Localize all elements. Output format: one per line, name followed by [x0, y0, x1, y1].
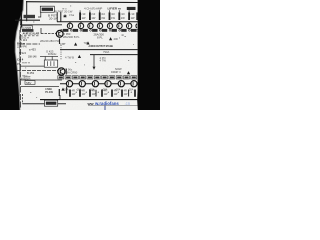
svg-text:A NMB: A NMB	[23, 26, 31, 30]
wire bottom bus	[40, 99, 138, 101]
transistor B2	[79, 81, 85, 87]
svg-text:20-1W: 20-1W	[49, 17, 58, 21]
wire thick vertical x21.3	[20, 13, 22, 28]
wire V8	[59, 95, 61, 100]
bottom resistor row	[70, 90, 135, 97]
svg-text:3 ba: 3 ba	[69, 13, 75, 17]
svg-text:B 9x3: B 9x3	[19, 51, 26, 55]
svg-text:r10: r10	[91, 12, 95, 16]
transistor Q1	[67, 23, 72, 28]
resistor R-left2	[66, 87, 68, 94]
transistor Q2	[78, 23, 83, 28]
transistor Q6	[117, 23, 122, 28]
wire V5 + ground	[93, 55, 95, 67]
box NMB-A	[40, 6, 54, 12]
left black band	[0, 0, 24, 110]
triangle mark A7	[61, 88, 64, 91]
box phono	[44, 60, 57, 67]
wire bottom-left dashed vertical	[21, 94, 23, 104]
top transistor row Q1-Q7	[67, 23, 137, 28]
band edge shading	[15, 0, 23, 110]
svg-text:re o: re o	[62, 7, 67, 11]
label bottom designator row	[58, 76, 137, 79]
svg-text:r10: r10	[121, 12, 125, 16]
transistor Q8 (cut by band)	[136, 24, 137, 28]
wire bottom edge line	[22, 103, 66, 105]
svg-text:B 453: B 453	[27, 71, 35, 75]
wire line y70.8	[17, 69, 58, 71]
svg-text:r10: r10	[82, 12, 86, 16]
svg-text:PK: PK	[17, 62, 21, 66]
wire page-edge vertical	[20, 19, 22, 108]
wire line y44 left	[20, 43, 40, 45]
transistor B1	[66, 81, 72, 87]
transistor Q3	[88, 23, 93, 28]
transistor B4	[105, 81, 111, 87]
transistor B5	[118, 81, 124, 87]
wire vertical V3	[60, 12, 62, 22]
svg-text:ww: ww	[87, 101, 95, 106]
svg-text:8 PL: 8 PL	[97, 36, 103, 40]
svg-text:1W: 1W	[101, 16, 105, 20]
wire box stub	[38, 12, 41, 17]
svg-text:28A/300 B PL: 28A/300 B PL	[63, 35, 80, 39]
transistor T1	[41, 28, 63, 37]
wire line y66.8	[20, 65, 44, 67]
top resistor stubs	[80, 10, 129, 12]
junction stubs on top bus	[70, 22, 129, 24]
wire NBV strip line	[21, 79, 62, 81]
wire V7	[104, 105, 106, 110]
label bottom resistor values	[66, 90, 133, 96]
svg-text:22W PK: 22W PK	[17, 44, 27, 48]
svg-text:1W: 1W	[124, 93, 128, 96]
svg-text:4 TW: 4 TW	[100, 59, 107, 63]
wire top bus left	[15, 19, 40, 21]
triangle mark A2	[86, 41, 89, 44]
svg-text:400: 400	[114, 37, 119, 41]
svg-text:r10: r10	[131, 12, 135, 16]
label output box dark	[127, 7, 136, 10]
transistor Q4	[97, 23, 102, 28]
triangle mark A5	[78, 55, 81, 58]
label top transistor designators	[61, 29, 138, 32]
wire page-edge vertical 2	[18, 30, 20, 96]
wire y56.5	[40, 56, 58, 58]
svg-text:LIFIER rn: LIFIER rn	[108, 7, 122, 11]
wire left vertical border	[26, 1, 28, 21]
svg-text:4P rr: 4P rr	[115, 70, 121, 74]
triangle mark A4	[74, 43, 77, 46]
scan specks	[25, 6, 134, 98]
wire bottom circle bus	[60, 83, 138, 85]
svg-text:70-1W: 70-1W	[45, 90, 53, 94]
wire top main bus	[57, 21, 138, 23]
page background	[0, 0, 160, 110]
svg-text:DM: DM	[111, 70, 115, 74]
svg-text:a 453: a 453	[29, 48, 36, 52]
svg-text:NBV: NBV	[26, 81, 32, 85]
svg-text:w.radiofans: w.radiofans	[94, 101, 119, 106]
svg-text:rr rrr rr: rr rrr rr	[22, 60, 30, 64]
left column dense text	[17, 15, 39, 81]
resistor squiggle x59.5	[59, 39, 61, 45]
resistor R-left	[58, 89, 60, 96]
wire mid bus left	[20, 24, 62, 26]
svg-text:AUDIO OUTPUT STAGE: AUDIO OUTPUT STAGE	[89, 44, 114, 48]
label under bottom transistors	[63, 87, 134, 91]
wire top border	[26, 1, 138, 4]
label resistor values row	[63, 12, 135, 20]
transistor B6	[131, 81, 137, 87]
svg-text:308-148: 308-148	[28, 56, 37, 58]
svg-text:4 TW B: 4 TW B	[65, 55, 74, 59]
svg-text:1W: 1W	[131, 16, 135, 20]
wire dotted vertical x61	[60, 45, 62, 60]
svg-text:1W: 1W	[92, 93, 96, 96]
svg-text:790A: 790A	[103, 50, 109, 54]
svg-text:1W: 1W	[82, 16, 86, 20]
svg-text:4 CH (R) AMP: 4 CH (R) AMP	[84, 7, 102, 11]
svg-text:28A/49 28C/730: 28A/49 28C/730	[40, 39, 60, 43]
extra resistor bars	[95, 90, 97, 97]
transistor Q7	[126, 23, 131, 28]
triangle mark A1	[63, 14, 66, 17]
label small box A-NMB	[22, 26, 33, 30]
svg-text:28A CR90: 28A CR90	[65, 70, 78, 74]
svg-text:1W: 1W	[121, 16, 125, 20]
bottom transistor row	[66, 81, 137, 87]
svg-text:1W: 1W	[91, 16, 95, 20]
svg-text:r10: r10	[111, 12, 115, 16]
box NMB-4	[45, 100, 58, 106]
svg-text:r10: r10	[101, 12, 105, 16]
wire line y86.5 left	[21, 86, 59, 88]
wire box right stub	[56, 12, 58, 22]
svg-text:.cn: .cn	[125, 101, 131, 106]
transistor Q5	[107, 23, 112, 28]
wire bus mid2	[90, 54, 138, 56]
transistor B3	[92, 81, 98, 87]
transistor T2	[58, 68, 65, 75]
svg-text:AUR1CULAR: AUR1CULAR	[23, 32, 40, 36]
ground	[93, 67, 96, 70]
triangle mark A3	[109, 37, 112, 40]
top resistor row	[80, 12, 137, 20]
box NBV	[25, 81, 35, 85]
wire bus mid	[60, 49, 138, 51]
right black band	[137, 0, 160, 110]
wire dashes y35.8 left	[20, 35, 40, 37]
svg-text:1W: 1W	[111, 16, 115, 20]
triangle mark A6	[127, 71, 130, 74]
svg-text:DISCH: DISCH	[48, 52, 56, 56]
svg-text:1 P: 1 P	[63, 14, 67, 18]
